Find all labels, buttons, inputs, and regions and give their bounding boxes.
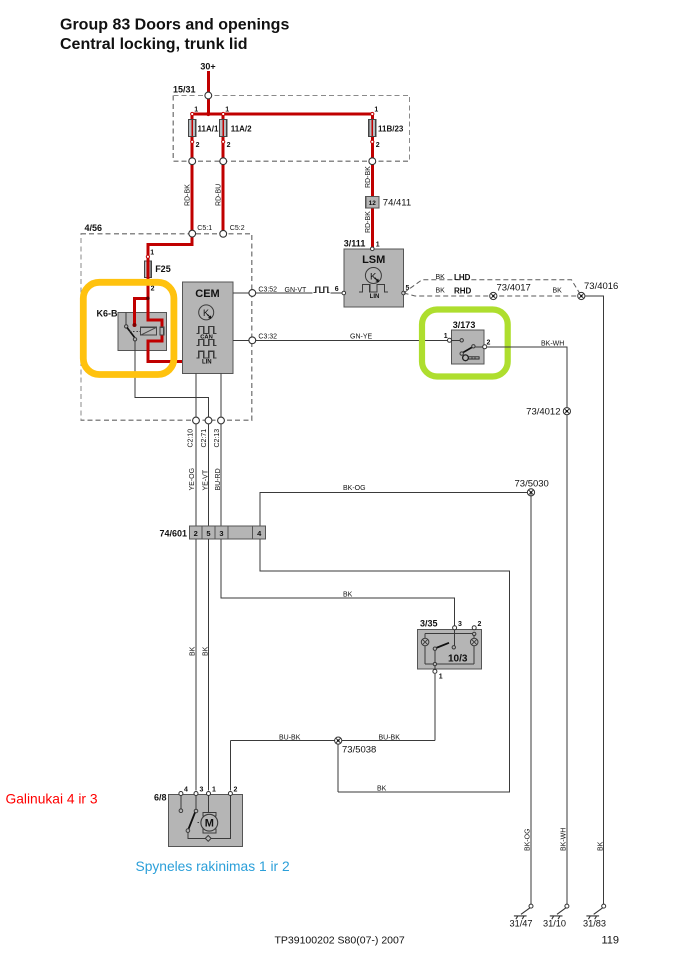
svg-text:1: 1 <box>439 674 443 681</box>
wire from 73/4016 down to ground 31/83 <box>581 296 603 906</box>
wire relay coil actuation branch (red) <box>135 298 148 324</box>
svg-text:YE-VT: YE-VT <box>203 469 210 490</box>
svg-text:74/601: 74/601 <box>159 529 187 539</box>
wire BU-BK 6/8 pin2 to 3/35 pin1 <box>230 674 435 791</box>
wire CEM C3:32 to 3/173 pin 1 (GN-YE) <box>233 333 450 340</box>
svg-text:2: 2 <box>487 340 491 347</box>
connector circle fuse 11A/1 output <box>189 158 196 165</box>
connector strip 74/601 <box>159 526 265 539</box>
svg-text:GN-VT: GN-VT <box>285 287 308 294</box>
svg-text:1: 1 <box>212 787 216 794</box>
relay K6-B box <box>97 309 167 351</box>
wire 74/601 pin4 up BK-OG to splice 73/5030 <box>260 485 531 526</box>
splice 73/4016 <box>578 281 619 300</box>
svg-text:C2:13: C2:13 <box>214 429 221 448</box>
wire RHD (dashed) <box>404 287 582 297</box>
svg-text:2: 2 <box>227 142 231 149</box>
svg-text:1: 1 <box>444 333 448 340</box>
relay K6-B coil <box>141 327 157 335</box>
switch unit 3/35 <box>418 619 482 681</box>
connector circle fuse 11B/23 output <box>369 158 376 165</box>
svg-text:RD-BK: RD-BK <box>184 184 191 206</box>
svg-text:BK: BK <box>190 646 197 656</box>
svg-text:2: 2 <box>478 621 482 628</box>
connector C2:71 <box>201 417 212 447</box>
svg-text:Galinukai 4 ir 3: Galinukai 4 ir 3 <box>6 792 98 807</box>
wire relay coil out to CEM (red) <box>148 335 182 361</box>
svg-text:RD-BK: RD-BK <box>365 211 372 233</box>
svg-text:C2:71: C2:71 <box>201 429 208 448</box>
svg-text:11B/23: 11B/23 <box>378 125 404 134</box>
wire C5:1 to F25 (red) <box>148 234 192 256</box>
svg-text:C5:1: C5:1 <box>197 225 212 232</box>
connector C5:1 <box>189 230 196 237</box>
ground 31/10 <box>543 904 569 928</box>
svg-text:3: 3 <box>200 787 204 794</box>
svg-text:LIN: LIN <box>202 360 212 366</box>
svg-text:2: 2 <box>194 529 198 538</box>
splice 73/5038 <box>335 737 377 756</box>
svg-text:BU-BK: BU-BK <box>379 734 401 741</box>
svg-text:5: 5 <box>206 529 210 538</box>
wire 74/601 pin4 down loop to 73/5038 <box>260 539 509 792</box>
connector 74/411 <box>366 197 411 209</box>
svg-text:C5:2: C5:2 <box>230 225 245 232</box>
svg-text:10/3: 10/3 <box>448 654 468 665</box>
svg-text:1: 1 <box>194 107 198 114</box>
svg-text:73/4017: 73/4017 <box>497 283 531 294</box>
splice 73/4017 <box>490 283 531 300</box>
svg-text:K: K <box>203 308 209 318</box>
svg-text:4: 4 <box>184 787 188 794</box>
wire red bus <box>192 112 372 115</box>
wire splice 73/5038 drop <box>337 741 339 793</box>
switch 3/173 <box>444 320 491 364</box>
svg-text:BK: BK <box>436 274 446 281</box>
wire fuse 11B/23 drop <box>371 114 374 247</box>
svg-text:11A/2: 11A/2 <box>231 125 252 134</box>
junction bus/30+ <box>206 112 210 116</box>
dashed box 4/56 <box>81 223 252 420</box>
svg-text:C3:52: C3:52 <box>258 287 277 294</box>
svg-text:73/4016: 73/4016 <box>584 281 618 292</box>
svg-text:BK: BK <box>598 841 605 851</box>
svg-text:6: 6 <box>335 286 339 293</box>
svg-text:2: 2 <box>196 142 200 149</box>
svg-text:15/31: 15/31 <box>173 85 196 95</box>
wire 74/601 pin3 down BK to 3/35 pin3 <box>221 539 455 626</box>
svg-text:RD-BU: RD-BU <box>215 184 222 206</box>
connector C3:52 <box>249 290 256 297</box>
svg-text:73/4012: 73/4012 <box>526 407 560 418</box>
splice 73/5030 <box>515 479 549 497</box>
wire CEM C3:52 to LSM pin 6 (GN-VT) <box>233 286 344 295</box>
svg-text:2: 2 <box>376 142 380 149</box>
svg-text:BK: BK <box>203 646 210 656</box>
wire fuse 11A/2 drop <box>222 114 225 234</box>
svg-text:BK: BK <box>377 785 387 792</box>
connector C2:10 <box>188 417 200 447</box>
svg-text:1: 1 <box>374 107 378 114</box>
svg-text:BK-OG: BK-OG <box>343 485 366 492</box>
ground 31/47 <box>510 904 534 928</box>
ground 31/83 <box>583 904 606 928</box>
svg-text:1: 1 <box>150 250 154 257</box>
svg-text:YE-OG: YE-OG <box>189 468 196 491</box>
svg-text:3/35: 3/35 <box>420 619 438 629</box>
svg-text:Central locking, trunk lid: Central locking, trunk lid <box>60 36 248 53</box>
svg-text:31/47: 31/47 <box>510 919 533 929</box>
svg-text:1: 1 <box>225 107 229 114</box>
module CEM <box>182 282 233 374</box>
title <box>60 17 289 54</box>
wire YE-VT <box>203 424 210 526</box>
highlight yellow around K6-B <box>83 282 174 374</box>
svg-text:2: 2 <box>234 787 238 794</box>
svg-text:RD-BK: RD-BK <box>365 166 372 188</box>
svg-text:BK-WH: BK-WH <box>541 340 564 347</box>
svg-text:6/8: 6/8 <box>154 793 167 803</box>
svg-text:BK-OG: BK-OG <box>525 828 532 851</box>
wire fuse 11A/1 drop <box>191 114 194 234</box>
fuse 11B/23 <box>369 107 404 150</box>
wire relay common down <box>135 341 209 421</box>
fuse 11A/2 <box>220 107 252 150</box>
svg-text:C3:32: C3:32 <box>258 334 277 341</box>
svg-text:4/56: 4/56 <box>85 223 103 233</box>
svg-text:RHD: RHD <box>454 287 472 296</box>
svg-text:31/83: 31/83 <box>583 919 606 929</box>
svg-text:3: 3 <box>458 621 462 628</box>
connector circle fuse 11A/2 output <box>220 158 227 165</box>
svg-text:73/5038: 73/5038 <box>342 745 376 756</box>
fuse 11A/1 <box>189 107 219 150</box>
svg-text:LIN: LIN <box>370 294 380 300</box>
wire 74/601 pin2 down BK to 6/8 pin3 <box>190 539 197 791</box>
splice 73/4012 <box>526 407 570 418</box>
svg-text:CEM: CEM <box>195 288 219 300</box>
svg-text:M: M <box>205 818 214 830</box>
wire LHD (dashed) <box>404 273 582 296</box>
svg-text:K6-B: K6-B <box>97 309 119 319</box>
svg-text:12: 12 <box>369 200 377 207</box>
wire CEM pins down to connector <box>195 374 197 418</box>
wire YE-OG <box>189 424 196 526</box>
svg-text:C2:10: C2:10 <box>188 429 195 448</box>
wire 30+ supply <box>207 71 210 114</box>
svg-text:BU-BK: BU-BK <box>279 734 301 741</box>
svg-text:BK-WH: BK-WH <box>561 828 568 851</box>
svg-text:119: 119 <box>602 935 620 947</box>
svg-text:Group 83 Doors and openings: Group 83 Doors and openings <box>60 17 289 34</box>
svg-text:GN-YE: GN-YE <box>350 333 373 340</box>
wire 74/601 pin5 down BK to 6/8 pin1 <box>203 539 210 791</box>
svg-text:31/10: 31/10 <box>543 919 566 929</box>
svg-text:73/5030: 73/5030 <box>515 479 549 490</box>
svg-text:BU-RD: BU-RD <box>215 468 222 490</box>
svg-text:Spyneles rakinimas 1 ir 2: Spyneles rakinimas 1 ir 2 <box>136 859 290 874</box>
fusebox 15/31 dashed box <box>173 85 410 162</box>
svg-text:1: 1 <box>376 242 380 249</box>
connector C3:32 <box>249 337 256 344</box>
relay K6-B coil cap terminal <box>160 327 164 335</box>
svg-text:BK: BK <box>553 288 563 295</box>
motor unit 6/8 <box>154 787 243 847</box>
svg-text:3/111: 3/111 <box>344 239 366 249</box>
wire F25 pin2 down (red) <box>148 285 162 328</box>
connector circle 30+ entry <box>205 92 212 99</box>
svg-text:2: 2 <box>151 286 155 293</box>
highlight green around 3/173 <box>422 310 508 377</box>
svg-text:BK: BK <box>343 592 353 599</box>
svg-text:74/411: 74/411 <box>383 197 411 208</box>
svg-text:LHD: LHD <box>454 273 471 282</box>
svg-text:TP39100202 S80(07-) 2007: TP39100202 S80(07-) 2007 <box>275 934 405 946</box>
svg-text:3/173: 3/173 <box>453 320 476 330</box>
connector C5:2 <box>220 230 227 237</box>
svg-text:BK: BK <box>436 288 446 295</box>
fuse F25 <box>145 250 171 293</box>
wire splice 73/5030 down to ground 31/47 <box>530 492 532 906</box>
svg-text:LSM: LSM <box>362 254 385 266</box>
module LSM 3/111 <box>342 239 410 307</box>
wire 3/173 pin2 BK-WH down right side <box>487 340 567 906</box>
svg-text:F25: F25 <box>155 264 171 274</box>
svg-text:11A/1: 11A/1 <box>198 125 219 134</box>
svg-text:30+: 30+ <box>200 62 215 72</box>
connector C2:13 <box>214 417 224 447</box>
relay K6-B contact <box>125 312 141 341</box>
wire BU-RD <box>215 424 222 526</box>
svg-text:3: 3 <box>219 529 223 538</box>
